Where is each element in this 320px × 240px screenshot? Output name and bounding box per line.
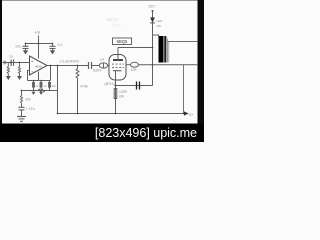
svg-text:0.1uF/400V: 0.1uF/400V <box>60 59 80 63</box>
svg-text:10k: 10k <box>25 98 31 102</box>
svg-text:−: − <box>31 69 34 74</box>
svg-text:10u: 10u <box>15 44 21 48</box>
svg-text:amp: amp <box>113 24 123 29</box>
svg-text:+: + <box>31 59 34 64</box>
svg-text:[823x496] upic.me: [823x496] upic.me <box>95 126 197 140</box>
svg-text:1W: 1W <box>157 24 162 28</box>
svg-text:B+: B+ <box>189 113 193 117</box>
svg-text:+ 47u: + 47u <box>26 107 35 111</box>
svg-text:+V: +V <box>35 30 41 35</box>
svg-text:4558: 4558 <box>35 65 42 69</box>
svg-text:630V: 630V <box>93 69 102 73</box>
svg-text:1M: 1M <box>100 58 105 62</box>
svg-text:6BQ5: 6BQ5 <box>107 17 120 23</box>
svg-text:22k: 22k <box>52 84 57 88</box>
svg-text:LED: LED <box>157 19 164 23</box>
svg-text:6BQ5: 6BQ5 <box>117 39 128 44</box>
svg-text:250V: 250V <box>148 5 156 9</box>
svg-text:(6P14): (6P14) <box>105 82 115 86</box>
svg-text:22R: 22R <box>131 68 138 72</box>
svg-text:0.1: 0.1 <box>58 43 63 47</box>
svg-text:1u: 1u <box>9 54 13 58</box>
svg-text:470k: 470k <box>80 85 88 89</box>
